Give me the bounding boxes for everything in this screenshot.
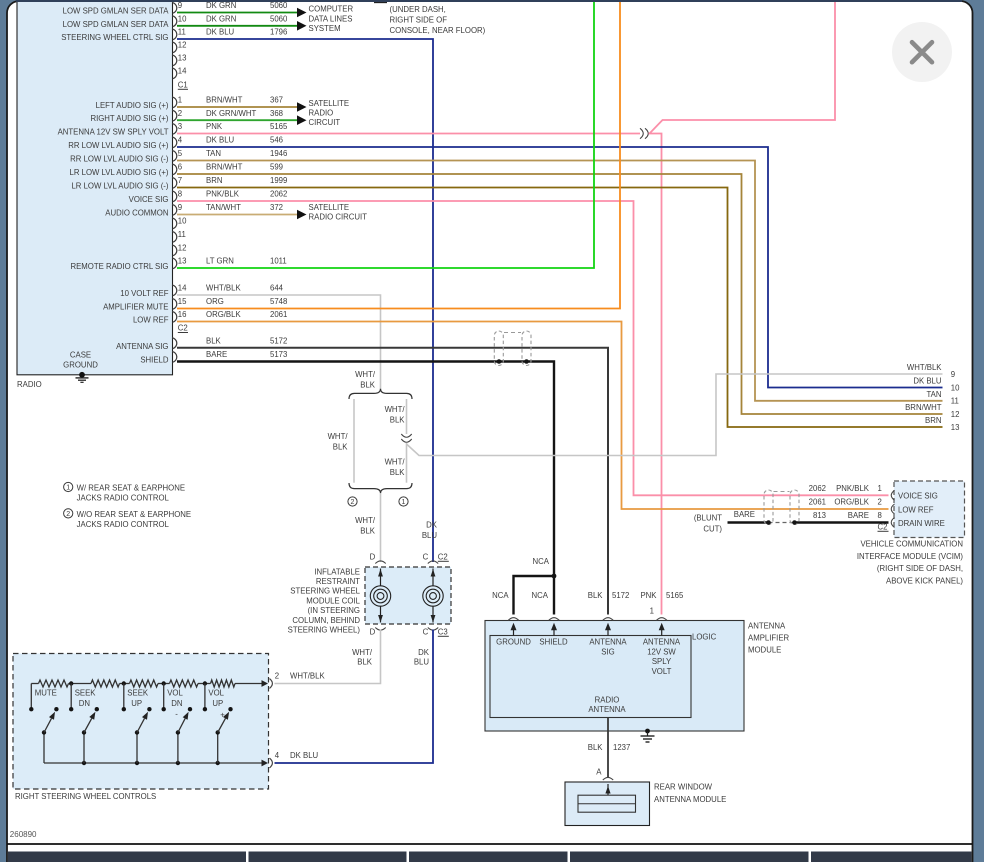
wire BLK 5172 antenna sig to antenna amplifier: [177, 348, 608, 615]
inline connector arcs on WHT/BLK branch 1: [401, 434, 411, 442]
svg-text:16: 16: [178, 310, 187, 319]
wire PNK/BLK 2062 pin 8 to VCIM pin 1: [177, 201, 889, 495]
svg-text:9: 9: [951, 370, 955, 379]
steering controls bottom wire: [44, 761, 264, 765]
svg-text:10 VOLT REF: 10 VOLT REF: [120, 289, 168, 298]
svg-text:368: 368: [270, 109, 283, 118]
svg-text:2: 2: [275, 671, 279, 680]
switch SEEK UP: [122, 684, 152, 764]
svg-text:5165: 5165: [666, 591, 684, 600]
svg-text:LR LOW LVL AUDIO SIG (+): LR LOW LVL AUDIO SIG (+): [69, 168, 168, 177]
svg-text:DK: DK: [418, 648, 430, 657]
label DK BLU below coil: [414, 648, 430, 667]
VCIM module box: [894, 481, 965, 538]
svg-text:STEERING WHEEL): STEERING WHEEL): [288, 626, 361, 635]
switch SEEK DN: [69, 684, 99, 764]
svg-text:DK GRN/WHT: DK GRN/WHT: [206, 109, 256, 118]
radio antenna label: [588, 696, 626, 715]
svg-text:1: 1: [402, 499, 406, 506]
svg-text:11: 11: [178, 230, 186, 239]
svg-text:TAN: TAN: [206, 149, 221, 158]
NCA labels: [492, 557, 550, 600]
coil element left: [370, 569, 390, 623]
wire BLK 1237 to rear window antenna module: [607, 718, 609, 779]
svg-text:4: 4: [275, 751, 280, 760]
svg-text:2: 2: [66, 511, 70, 518]
VCIM pin arcs: [891, 490, 894, 527]
svg-text:1237: 1237: [613, 743, 630, 752]
connector dots on bare shield wire: [497, 359, 502, 364]
svg-text:5165: 5165: [270, 122, 288, 131]
wire DK BLU 546 pin 4 to right edge pin 10: [177, 147, 943, 388]
wire ORG/BLK 2061 pin 16 to VCIM pin 2: [177, 322, 889, 510]
svg-text:BLU: BLU: [414, 658, 430, 667]
svg-text:C2: C2: [438, 553, 448, 562]
svg-text:RADIO CIRCUIT: RADIO CIRCUIT: [309, 213, 368, 222]
satellite radio circuit text upper: [309, 99, 350, 127]
svg-text:CIRCUIT: CIRCUIT: [309, 118, 341, 127]
wire ORG 5748 pin 15 to page top: [177, 2, 620, 309]
svg-text:9: 9: [178, 1, 182, 10]
svg-text:5748: 5748: [270, 297, 287, 306]
svg-text:ANTENNA: ANTENNA: [748, 622, 786, 631]
svg-text:COLUMN, BEHIND: COLUMN, BEHIND: [292, 616, 360, 625]
label WHT/BLK above coil: [355, 516, 376, 536]
label WHT/BLK right branch upper: [385, 405, 406, 425]
svg-text:NCA: NCA: [492, 591, 509, 600]
svg-text:WHT/BLK: WHT/BLK: [290, 672, 325, 681]
radio pin arcs and numbers: [172, 1, 188, 362]
svg-text:8: 8: [178, 190, 182, 199]
svg-text:CASE: CASE: [70, 351, 91, 360]
svg-text:(BLUNT: (BLUNT: [694, 513, 722, 522]
label WHT/BLK above brace: [355, 370, 376, 390]
wire WHT/BLK splice to coil connector: [380, 493, 382, 562]
svg-text:SYSTEM: SYSTEM: [309, 24, 341, 33]
rear window antenna element: [578, 795, 636, 812]
svg-text:JACKS RADIO CONTROL: JACKS RADIO CONTROL: [77, 494, 170, 503]
wire NCA branch to amplifier shield pin: [553, 576, 555, 615]
right edge connector pins 9-13: [905, 363, 960, 432]
svg-text:1796: 1796: [270, 28, 287, 37]
svg-text:GROUND: GROUND: [63, 360, 98, 369]
svg-text:ANTENNA MODULE: ANTENNA MODULE: [654, 795, 726, 804]
svg-text:REMOTE RADIO CTRL SIG: REMOTE RADIO CTRL SIG: [70, 262, 168, 271]
wire BRN 1999 pin 7 to right edge pin 13: [177, 188, 943, 428]
radio wire colour and circuit number labels: [206, 1, 288, 359]
svg-text:AUDIO COMMON: AUDIO COMMON: [105, 209, 168, 218]
svg-text:LEFT AUDIO SIG (+): LEFT AUDIO SIG (+): [96, 101, 169, 110]
svg-text:BLK: BLK: [588, 743, 604, 752]
svg-text:LOW REF: LOW REF: [133, 316, 169, 325]
svg-text:GROUND: GROUND: [496, 638, 531, 647]
svg-text:1011: 1011: [270, 257, 287, 266]
amplifier pin arcs: [508, 618, 518, 621]
svg-text:LR LOW LVL AUDIO SIG (-): LR LOW LVL AUDIO SIG (-): [71, 182, 168, 191]
wire DK GRN 5060 pin 10 to computer data lines: [177, 21, 307, 31]
svg-text:2062: 2062: [270, 190, 287, 199]
svg-text:C1: C1: [178, 81, 188, 90]
svg-text:1: 1: [66, 485, 70, 492]
svg-text:12: 12: [178, 244, 187, 253]
svg-text:NCA: NCA: [532, 591, 549, 600]
coil connector C3 labels: [370, 628, 449, 637]
page top border line: [16, 0, 962, 2]
wire WHT/BLK branch 2 left: [353, 399, 355, 483]
svg-text:ANTENNA: ANTENNA: [588, 705, 626, 714]
antenna amplifier inner box: [490, 636, 691, 718]
svg-text:STEERING WHEEL: STEERING WHEEL: [290, 587, 360, 596]
svg-text:BRN: BRN: [925, 416, 941, 425]
coil element right: [423, 569, 443, 623]
diagram frame bottom border: [7, 843, 973, 845]
svg-text:12V SW: 12V SW: [647, 647, 676, 656]
wire PNK 5165 branch down to antenna amplifier: [649, 134, 662, 615]
svg-text:BLK: BLK: [360, 527, 376, 536]
svg-text:DN: DN: [79, 699, 90, 708]
svg-text:7: 7: [178, 176, 182, 185]
svg-text:BLU: BLU: [422, 531, 438, 540]
svg-text:-: -: [175, 710, 178, 719]
svg-text:C3: C3: [438, 628, 448, 637]
antenna amplifier module outer box: [485, 621, 744, 732]
svg-text:DK BLU: DK BLU: [290, 751, 319, 760]
svg-text:1: 1: [878, 484, 882, 493]
radio pin signal labels: [58, 7, 170, 370]
svg-text:BRN/WHT: BRN/WHT: [206, 96, 243, 105]
inflatable restraint coil module box: [365, 567, 451, 624]
svg-text:STEERING WHEEL CTRL SIG: STEERING WHEEL CTRL SIG: [61, 33, 168, 42]
wire DK BLU 1796 pin 11 to coil connector C2: [177, 39, 433, 562]
svg-text:BLK: BLK: [357, 658, 373, 667]
svg-text:813: 813: [813, 511, 826, 520]
junction dot shield NCA: [552, 574, 557, 579]
svg-text:TAN: TAN: [926, 390, 941, 399]
svg-text:14: 14: [178, 284, 187, 293]
svg-text:ANTENNA SIG: ANTENNA SIG: [116, 342, 168, 351]
svg-text:RESTRAINT: RESTRAINT: [316, 577, 360, 586]
amplifier pin arrows: [511, 623, 665, 636]
rear window module caption: [654, 782, 726, 804]
circled 2 branch label: [348, 497, 357, 506]
circled 1 branch label: [399, 497, 408, 506]
svg-text:C2: C2: [878, 523, 888, 532]
wire WHT/BLK branch 1 right lower: [406, 443, 408, 483]
wire PNK 5165 branch up to page top: [650, 2, 836, 134]
svg-text:1999: 1999: [270, 176, 287, 185]
wire BARE 5173 shield to junction: [177, 362, 554, 577]
VCIM wire labels: [809, 484, 882, 520]
label PNK 5165 at amplifier: [640, 591, 684, 600]
svg-text:11: 11: [951, 397, 959, 406]
steering pin 4 exit connector: [262, 751, 280, 768]
wire WHT/BLK to right edge pin 9: [407, 374, 943, 456]
coil connector arcs top: [375, 561, 385, 564]
svg-text:BLK: BLK: [206, 336, 222, 345]
lower splice brace: [349, 483, 412, 493]
svg-text:BRN/WHT: BRN/WHT: [905, 403, 942, 412]
svg-text:LT GRN: LT GRN: [206, 257, 234, 266]
svg-text:2061: 2061: [270, 310, 287, 319]
under dash location text: [390, 5, 486, 35]
svg-text:MODULE: MODULE: [748, 646, 781, 655]
inline connector arcs on PNK wire: [640, 128, 648, 138]
svg-text:RR LOW LVL AUDIO SIG (-): RR LOW LVL AUDIO SIG (-): [70, 155, 169, 164]
svg-text:5173: 5173: [270, 350, 287, 359]
computer data lines system text: [309, 5, 354, 33]
svg-text:WHT/BLK: WHT/BLK: [206, 284, 241, 293]
wire WHT/BLK coil to steering wheel controls: [275, 630, 381, 684]
svg-text:DK BLU: DK BLU: [206, 136, 235, 145]
svg-text:372: 372: [270, 203, 283, 212]
svg-text:BLK: BLK: [333, 443, 349, 452]
svg-text:260890: 260890: [10, 830, 37, 839]
footnote 1 with rear seat: [64, 482, 185, 502]
svg-text:BARE: BARE: [734, 510, 755, 519]
svg-text:5172: 5172: [612, 591, 629, 600]
svg-text:LOW SPD GMLAN SER DATA: LOW SPD GMLAN SER DATA: [63, 7, 170, 16]
svg-text:DK BLU: DK BLU: [913, 377, 942, 386]
svg-text:C: C: [423, 628, 429, 637]
svg-text:BARE: BARE: [206, 350, 227, 359]
svg-text:5172: 5172: [270, 336, 287, 345]
wire TAN/WHT 372 pin 9 to satellite radio circuit: [177, 210, 307, 220]
close button: [892, 22, 952, 82]
svg-text:A: A: [596, 768, 602, 777]
svg-text:ANTENNA 12V SW SPLY VOLT: ANTENNA 12V SW SPLY VOLT: [58, 128, 169, 137]
right steering wheel controls box: [13, 654, 269, 790]
wire DK BLU coil to steering wheel controls: [275, 630, 434, 764]
svg-text:DK GRN: DK GRN: [206, 1, 236, 10]
steering controls top wire junction dots: [69, 681, 207, 685]
svg-text:RADIO: RADIO: [595, 696, 620, 705]
amplifier pin labels: [496, 638, 681, 676]
svg-text:JACKS RADIO CONTROL: JACKS RADIO CONTROL: [77, 520, 170, 529]
cut-off ground symbol at top: [374, 0, 409, 3]
svg-text:AMPLIFIER: AMPLIFIER: [748, 634, 790, 643]
svg-text:COMPUTER: COMPUTER: [309, 5, 354, 14]
VCIM C2 label: [878, 523, 889, 532]
svg-text:BARE: BARE: [848, 511, 869, 520]
svg-text:PNK/BLK: PNK/BLK: [206, 190, 240, 199]
svg-text:SATELLITE: SATELLITE: [309, 99, 350, 108]
coil connector arcs bottom: [375, 628, 385, 631]
label BLK 5172 at amplifier: [588, 591, 630, 600]
svg-text:WHT/: WHT/: [385, 458, 406, 467]
svg-text:WHT/: WHT/: [355, 516, 376, 525]
switch MUTE: [29, 684, 59, 764]
svg-text:LOW REF: LOW REF: [898, 505, 934, 514]
radio connector box: [17, 0, 173, 375]
svg-text:(RIGHT SIDE OF DASH,: (RIGHT SIDE OF DASH,: [877, 564, 963, 573]
svg-text:SEEK: SEEK: [127, 688, 149, 697]
svg-text:WHT/: WHT/: [385, 405, 406, 414]
svg-text:RIGHT STEERING WHEEL CONTROLS: RIGHT STEERING WHEEL CONTROLS: [15, 792, 156, 801]
svg-text:VOL: VOL: [167, 688, 183, 697]
svg-text:W/O REAR SEAT & EARPHONE: W/O REAR SEAT & EARPHONE: [77, 510, 192, 519]
svg-text:BLK: BLK: [360, 381, 376, 390]
svg-text:367: 367: [270, 96, 283, 105]
svg-text:SHIELD: SHIELD: [140, 356, 169, 365]
wire BARE 813 drain wire: [728, 521, 889, 523]
coil module caption: [288, 567, 361, 634]
svg-text:DN: DN: [171, 699, 182, 708]
svg-text:LOW SPD GMLAN SER DATA: LOW SPD GMLAN SER DATA: [63, 20, 170, 29]
svg-text:UP: UP: [131, 699, 142, 708]
svg-text:ANTENNA: ANTENNA: [643, 638, 681, 647]
svg-text:WHT/BLK: WHT/BLK: [907, 363, 942, 372]
svg-text:599: 599: [270, 163, 283, 172]
svg-text:DATA LINES: DATA LINES: [309, 14, 353, 23]
wire DK GRN/WHT 368 pin 2 to satellite radio circuit: [177, 115, 307, 125]
label DK BLU above coil: [422, 521, 438, 541]
svg-text:D: D: [370, 628, 376, 637]
rear window module pin arc: [603, 777, 613, 780]
svg-text:2: 2: [178, 109, 182, 118]
svg-text:VOICE SIG: VOICE SIG: [129, 195, 169, 204]
svg-text:RR LOW LVL AUDIO SIG (+): RR LOW LVL AUDIO SIG (+): [68, 141, 169, 150]
svg-text:VOLT: VOLT: [652, 667, 672, 676]
svg-text:DK GRN: DK GRN: [206, 14, 236, 23]
svg-text:NCA: NCA: [533, 557, 550, 566]
svg-text:12: 12: [178, 41, 187, 50]
steering pin 2 exit connector: [262, 671, 280, 688]
blunt cut label: [694, 513, 723, 533]
svg-text:2062: 2062: [809, 484, 826, 493]
svg-text:W/ REAR SEAT & EARPHONE: W/ REAR SEAT & EARPHONE: [77, 484, 185, 493]
svg-text:13: 13: [178, 257, 187, 266]
VCIM pin labels inside: [898, 492, 945, 528]
svg-text:5060: 5060: [270, 1, 288, 10]
svg-text:10: 10: [178, 217, 187, 226]
svg-text:ANTENNA: ANTENNA: [589, 638, 627, 647]
wire TAN 1946 pin 5 to right edge pin 11: [177, 161, 943, 401]
svg-text:SHIELD: SHIELD: [539, 638, 568, 647]
svg-text:DRAIN WIRE: DRAIN WIRE: [898, 519, 945, 528]
label WHT/BLK below coil: [352, 648, 373, 667]
svg-text:9: 9: [178, 203, 182, 212]
svg-text:ABOVE KICK PANEL): ABOVE KICK PANEL): [886, 576, 963, 585]
svg-text:RADIO: RADIO: [309, 108, 334, 117]
svg-text:1946: 1946: [270, 149, 287, 158]
svg-text:8: 8: [878, 511, 882, 520]
label WHT/BLK right branch lower: [385, 458, 406, 478]
svg-text:SIG: SIG: [601, 647, 614, 656]
svg-text:SPLY: SPLY: [652, 657, 672, 666]
bottom toolbar row: [8, 852, 972, 862]
wire LT GRN 1011 pin 13 to page top: [177, 2, 594, 268]
wire DK GRN 5060 pin 9 to computer data lines: [177, 8, 307, 18]
svg-text:13: 13: [951, 423, 960, 432]
coil connector C2 labels: [370, 553, 449, 562]
wire PNK 5165 pin 3 horizontal segment: [177, 133, 640, 135]
svg-text:14: 14: [178, 67, 187, 76]
rear window module pin arrow: [605, 784, 610, 796]
steering controls top wire with resistors: [31, 680, 264, 687]
svg-text:12: 12: [951, 410, 960, 419]
wire BRN/WHT 599 pin 6 to right edge pin 12: [177, 174, 943, 414]
svg-text:CUT): CUT): [703, 524, 722, 533]
svg-text:11: 11: [178, 28, 186, 37]
svg-text:PNK/BLK: PNK/BLK: [836, 484, 870, 493]
svg-text:MUTE: MUTE: [35, 688, 57, 697]
switch VOL DN: [162, 684, 193, 764]
svg-text:RADIO: RADIO: [17, 380, 42, 389]
svg-text:WHT/: WHT/: [355, 370, 376, 379]
svg-text:WHT/: WHT/: [352, 648, 373, 657]
svg-text:5060: 5060: [270, 14, 288, 23]
label WHT/BLK left branch: [328, 432, 349, 452]
svg-text:UP: UP: [212, 699, 223, 708]
svg-text:INTERFACE MODULE (VCIM): INTERFACE MODULE (VCIM): [857, 552, 964, 561]
svg-text:AMPLIFIER MUTE: AMPLIFIER MUTE: [103, 303, 168, 312]
svg-text:3: 3: [178, 122, 182, 131]
svg-text:546: 546: [270, 136, 283, 145]
antenna amplifier caption: [748, 622, 790, 655]
svg-text:VEHICLE COMMUNICATION: VEHICLE COMMUNICATION: [860, 540, 963, 549]
radio case ground symbol: [76, 372, 89, 382]
svg-text:2: 2: [878, 498, 882, 507]
svg-text:BRN: BRN: [206, 176, 222, 185]
wire WHT/BLK branch 1 right upper: [406, 399, 408, 434]
svg-text:10: 10: [178, 14, 187, 23]
rear window antenna module box: [565, 782, 650, 826]
svg-text:BLK: BLK: [390, 416, 406, 425]
svg-text:6: 6: [178, 163, 182, 172]
svg-text:SATELLITE: SATELLITE: [309, 203, 350, 212]
svg-text:15: 15: [178, 297, 187, 306]
svg-text:BLK: BLK: [390, 468, 406, 477]
switch VOL UP: [203, 684, 233, 764]
svg-text:D: D: [370, 553, 376, 562]
wire BRN/WHT 367 pin 1 to satellite radio circuit: [177, 102, 307, 112]
svg-text:TAN/WHT: TAN/WHT: [206, 203, 241, 212]
svg-text:BRN/WHT: BRN/WHT: [206, 163, 243, 172]
switch labels: [35, 688, 225, 719]
wire WHT/BLK 644 pin 14 to splice brace: [177, 295, 381, 391]
svg-text:13: 13: [178, 54, 187, 63]
svg-text:DK: DK: [426, 521, 438, 530]
svg-text:C2: C2: [178, 324, 188, 333]
svg-text:4: 4: [178, 136, 183, 145]
inline connector capsules on shield cable: [494, 331, 531, 366]
svg-text:5: 5: [178, 149, 183, 158]
svg-text:BLK: BLK: [588, 591, 604, 600]
connector dots on drain wire: [766, 520, 771, 525]
amplifier case ground: [641, 729, 655, 742]
svg-text:C: C: [423, 553, 429, 562]
svg-text:PNK: PNK: [206, 122, 223, 131]
svg-text:ORG/BLK: ORG/BLK: [206, 310, 241, 319]
svg-text:+: +: [220, 711, 225, 720]
svg-text:(UNDER DASH,: (UNDER DASH,: [390, 5, 446, 14]
svg-text:(IN STEERING: (IN STEERING: [308, 606, 360, 615]
svg-text:WHT/: WHT/: [328, 432, 349, 441]
svg-text:CONSOLE, NEAR FLOOR): CONSOLE, NEAR FLOOR): [390, 26, 486, 35]
svg-text:2: 2: [351, 499, 355, 506]
footnote 2 without rear seat: [64, 509, 192, 529]
svg-text:SEEK: SEEK: [75, 688, 97, 697]
svg-text:10: 10: [951, 383, 960, 392]
inline connector capsules on drain wire: [764, 490, 799, 525]
svg-text:MODULE COIL: MODULE COIL: [306, 596, 360, 605]
svg-text:ORG: ORG: [206, 297, 224, 306]
svg-text:INFLATABLE: INFLATABLE: [314, 567, 360, 576]
svg-text:RIGHT SIDE OF: RIGHT SIDE OF: [390, 16, 448, 25]
svg-text:RIGHT AUDIO SIG (+): RIGHT AUDIO SIG (+): [90, 114, 168, 123]
svg-text:LOGIC: LOGIC: [692, 633, 717, 642]
svg-text:REAR WINDOW: REAR WINDOW: [654, 782, 713, 791]
